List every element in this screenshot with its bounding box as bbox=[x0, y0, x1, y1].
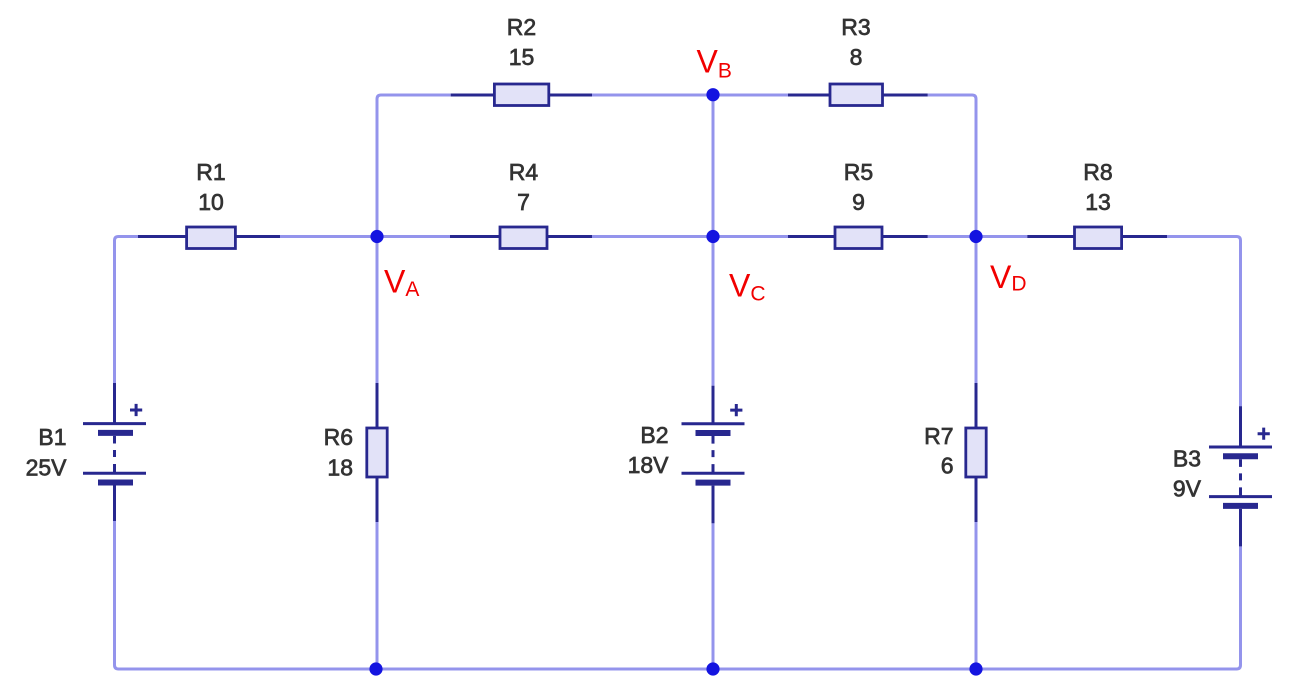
node C bbox=[706, 230, 719, 243]
battery B1 bbox=[83, 383, 146, 521]
wire bbox=[377, 235, 450, 238]
resistor R7 bbox=[966, 383, 986, 522]
svg-text:10: 10 bbox=[198, 189, 224, 215]
node B bbox=[706, 88, 719, 101]
resistor R8 bbox=[1027, 227, 1167, 249]
node A bbox=[370, 230, 383, 243]
svg-text:6: 6 bbox=[941, 453, 954, 479]
node bottom-middle junction bbox=[706, 662, 719, 675]
svg-text:R4: R4 bbox=[509, 159, 539, 185]
wire bbox=[712, 237, 715, 386]
wire bbox=[928, 235, 1028, 238]
svg-text:R5: R5 bbox=[844, 159, 873, 185]
label R7 value 6 bbox=[924, 423, 953, 479]
resistor R1 bbox=[138, 227, 280, 249]
svg-text:R6: R6 bbox=[324, 424, 353, 450]
wire bbox=[592, 94, 788, 97]
label R5 value 9 bbox=[844, 159, 873, 215]
label R2 value 15 bbox=[507, 14, 536, 70]
label R4 value 7 bbox=[509, 159, 539, 215]
node D bbox=[969, 230, 982, 243]
resistor R6 bbox=[367, 383, 387, 522]
svg-text:13: 13 bbox=[1085, 189, 1111, 215]
battery B2 bbox=[682, 386, 745, 524]
wire bbox=[377, 95, 451, 240]
label R6 value 18 bbox=[324, 424, 353, 481]
label R8 value 13 bbox=[1083, 159, 1112, 215]
battery B3 bbox=[1209, 406, 1272, 546]
svg-text:15: 15 bbox=[509, 44, 535, 70]
svg-text:8: 8 bbox=[850, 44, 863, 70]
wire bbox=[376, 233, 379, 241]
svg-text:9: 9 bbox=[852, 189, 865, 215]
resistor R4 bbox=[450, 227, 592, 249]
label R3 value 8 bbox=[841, 14, 870, 70]
wire bbox=[376, 237, 379, 384]
svg-text:B3: B3 bbox=[1173, 446, 1201, 472]
svg-text:R2: R2 bbox=[507, 14, 536, 40]
label B3 value 9V bbox=[1173, 446, 1202, 502]
wire bbox=[928, 95, 976, 383]
svg-text:9V: 9V bbox=[1173, 476, 1202, 502]
wire bbox=[115, 521, 373, 669]
wire bbox=[376, 522, 379, 669]
wire bbox=[372, 668, 980, 671]
resistor R2 bbox=[451, 84, 592, 106]
wire bbox=[975, 522, 978, 669]
svg-text:R7: R7 bbox=[924, 423, 953, 449]
wire bbox=[980, 546, 1241, 669]
svg-text:25V: 25V bbox=[26, 455, 68, 481]
svg-text:B1: B1 bbox=[38, 424, 66, 450]
label B1 value 25V bbox=[26, 424, 68, 481]
node bottom-right junction bbox=[969, 662, 982, 675]
label B2 value 18V bbox=[628, 422, 670, 478]
node bottom-left junction bbox=[369, 662, 382, 675]
svg-text:R1: R1 bbox=[196, 159, 225, 185]
wire bbox=[712, 95, 715, 237]
wire bbox=[1167, 237, 1241, 407]
svg-text:7: 7 bbox=[517, 189, 530, 215]
wire bbox=[592, 235, 788, 238]
svg-text:R3: R3 bbox=[841, 14, 870, 40]
label R1 value 10 bbox=[196, 159, 225, 215]
wire bbox=[115, 237, 139, 384]
svg-text:B2: B2 bbox=[640, 422, 668, 448]
wire bbox=[280, 235, 377, 238]
svg-text:18: 18 bbox=[327, 455, 353, 481]
svg-text:18V: 18V bbox=[628, 452, 670, 478]
wire bbox=[712, 523, 715, 669]
resistor R3 bbox=[788, 84, 928, 106]
svg-text:R8: R8 bbox=[1083, 159, 1112, 185]
resistor R5 bbox=[788, 227, 928, 249]
